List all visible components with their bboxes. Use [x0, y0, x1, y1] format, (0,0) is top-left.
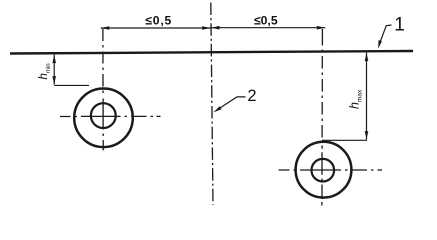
svg-text:≤0,5: ≤0,5	[254, 13, 278, 27]
svg-text:2: 2	[247, 87, 256, 105]
right hole vertical centerline	[321, 29, 324, 206]
left hole inner circle	[91, 103, 116, 128]
leader to label 2	[213, 97, 245, 113]
dimension h_max: value label	[348, 89, 364, 109]
dimension h_max: down arrow	[365, 131, 369, 140]
right hole horizontal centerline	[279, 169, 383, 171]
dimension h_max: up arrow	[365, 53, 369, 62]
dimension h_min: value label	[38, 63, 52, 79]
dimension h_min: line	[53, 55, 55, 85]
surface line (part 1)	[10, 51, 413, 54]
dimension ≤0,5 right: line	[211, 27, 325, 29]
dimension h_max: leader to hole top	[322, 139, 367, 141]
centerline node 2 (vertical dash-dot)	[211, 3, 213, 206]
dimension h_max: line	[366, 53, 368, 140]
left hole outer circle	[74, 89, 133, 148]
dimension ≤0,5 left: left arrow	[101, 26, 110, 30]
left hole vertical centerline	[102, 29, 104, 151]
svg-text:1: 1	[394, 15, 405, 36]
dimension ≤0,5 right: left arrow	[211, 26, 220, 30]
leader to label 1	[378, 25, 391, 49]
dimension ≤0,5 left: right arrow	[202, 26, 211, 30]
right hole inner circle	[312, 159, 335, 182]
dimension h_min: up arrow	[52, 55, 56, 64]
left hole horizontal centerline	[60, 115, 161, 117]
dimension h_min: leader to hole top	[54, 84, 89, 86]
dimension ≤0,5 left: line	[101, 27, 211, 29]
svg-text:≤0,5: ≤0,5	[145, 14, 172, 28]
dimension h_min: down arrow	[52, 76, 56, 85]
right hole outer circle	[296, 142, 352, 198]
dimension ≤0,5 right: right arrow	[317, 26, 326, 30]
